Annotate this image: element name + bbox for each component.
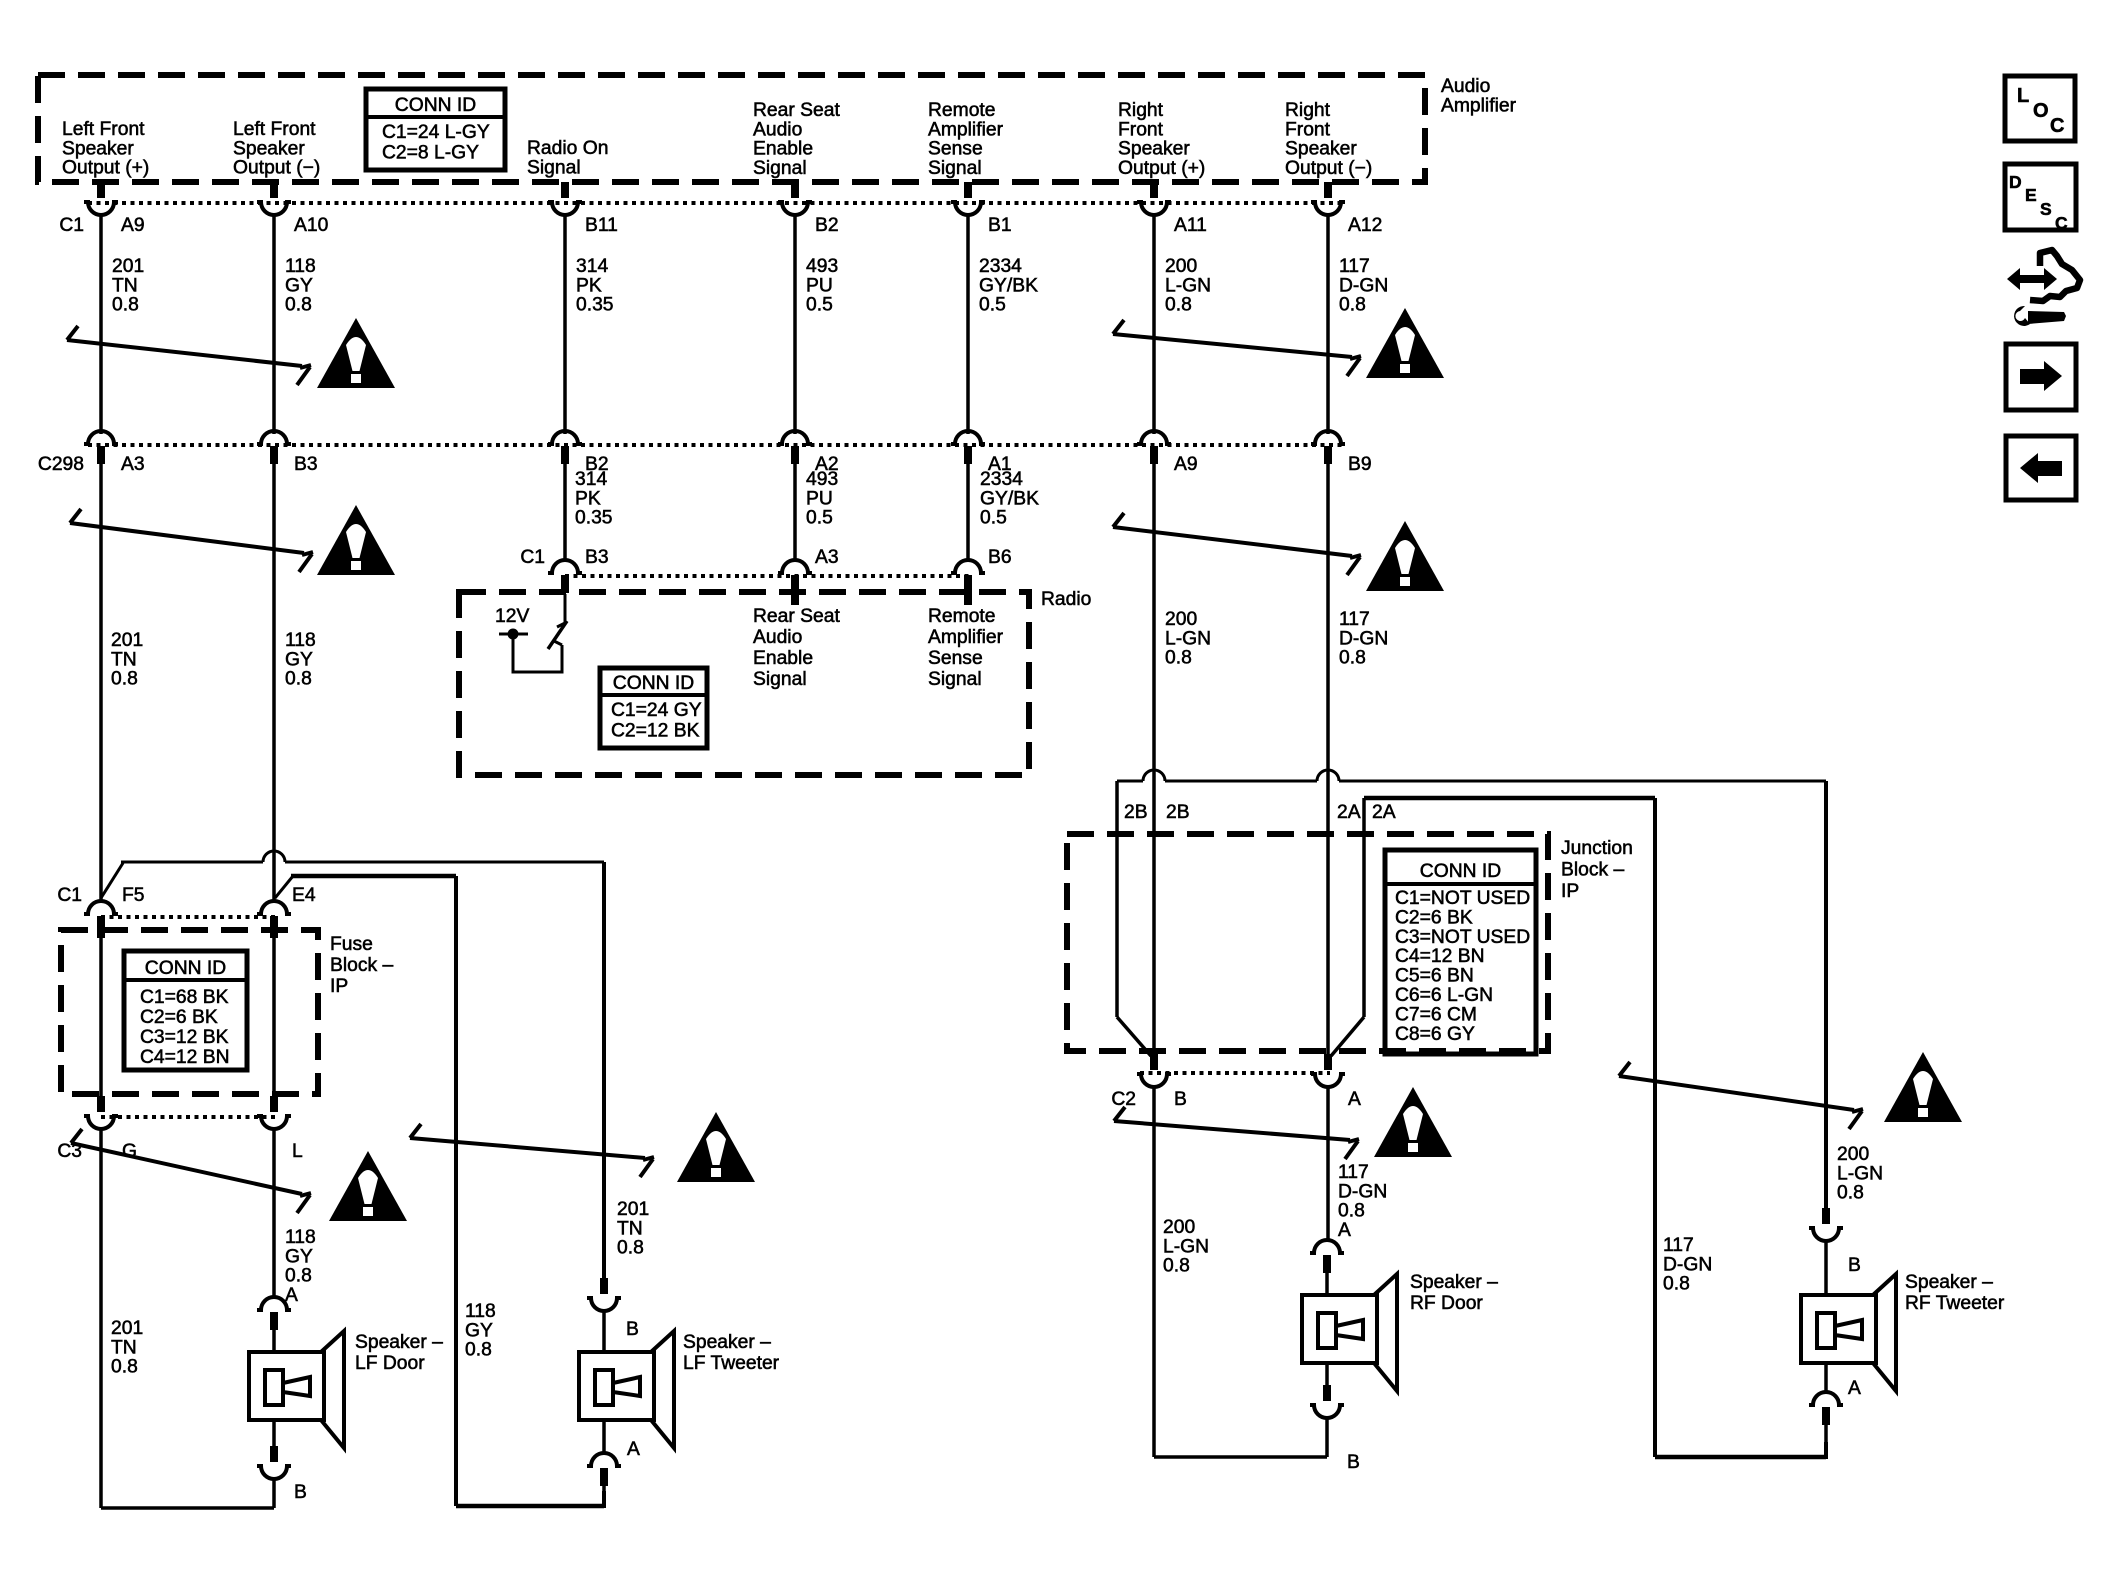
connector LF tweeter A bbox=[587, 1420, 621, 1507]
svg-text:D-GN: D-GN bbox=[1663, 1254, 1712, 1275]
svg-text:A12: A12 bbox=[1348, 215, 1382, 236]
svg-text:B6: B6 bbox=[988, 547, 1012, 568]
value label 201 TN 0.8 (LF tweeter B wire) bbox=[617, 1199, 649, 1259]
speaker RF Tweeter bbox=[1801, 1274, 1896, 1391]
connector amp pin B11 bbox=[548, 182, 582, 215]
svg-text:0.8: 0.8 bbox=[111, 1357, 138, 1378]
connector RF door B bbox=[1310, 1363, 1344, 1457]
pin label B3 (row3) bbox=[585, 547, 609, 568]
wire 493 PU (A2-A3) bbox=[793, 464, 797, 560]
connector LF tweeter B bbox=[587, 1278, 621, 1352]
svg-text:0.8: 0.8 bbox=[1663, 1274, 1690, 1295]
svg-text:Signal: Signal bbox=[753, 669, 807, 690]
svg-text:200: 200 bbox=[1165, 256, 1197, 277]
svg-text:Output (+): Output (+) bbox=[62, 158, 149, 179]
pin label B2 (row1) bbox=[815, 215, 839, 236]
pin label G bbox=[122, 1141, 137, 1162]
svg-text:GY/BK: GY/BK bbox=[980, 488, 1039, 509]
sidebar navigate icon (arrows and wrench) bbox=[2007, 250, 2080, 326]
pin label E4 bbox=[292, 885, 316, 906]
svg-text:493: 493 bbox=[806, 256, 838, 277]
svg-text:Speaker: Speaker bbox=[1118, 139, 1190, 160]
connector amp pin A12 bbox=[1311, 182, 1345, 215]
label Speaker - RF Door bbox=[1410, 1272, 1498, 1314]
pin label B9 (row2) bbox=[1348, 454, 1372, 475]
svg-text:Output (−): Output (−) bbox=[1285, 158, 1372, 179]
connector C298 pin B9 bbox=[1311, 431, 1345, 464]
svg-text:2A: 2A bbox=[1372, 802, 1396, 823]
pin label A1 (row2) bbox=[988, 454, 1012, 475]
svg-text:0.35: 0.35 bbox=[575, 508, 613, 529]
svg-text:Radio: Radio bbox=[1041, 589, 1091, 610]
warning triangle 6 bbox=[677, 1112, 755, 1182]
svg-text:Left Front: Left Front bbox=[62, 119, 145, 140]
svg-text:LF Door: LF Door bbox=[355, 1353, 425, 1374]
fuse block dashed box bbox=[61, 930, 318, 1094]
svg-text:118: 118 bbox=[285, 256, 316, 277]
junction block 2A labels bbox=[1337, 802, 1396, 823]
svg-text:Speaker –: Speaker – bbox=[1410, 1272, 1498, 1293]
svg-text:C1: C1 bbox=[57, 885, 82, 906]
label Junction Block - IP bbox=[1561, 838, 1633, 902]
svg-text:CONN ID: CONN ID bbox=[613, 673, 694, 694]
junction block CONN ID box bbox=[1385, 850, 1536, 1054]
svg-text:D-GN: D-GN bbox=[1339, 275, 1388, 296]
wire bus to RF tweeter A bbox=[1364, 798, 1826, 1459]
svg-text:B3: B3 bbox=[294, 454, 318, 475]
svg-text:Remote: Remote bbox=[928, 100, 996, 121]
svg-text:L-GN: L-GN bbox=[1837, 1163, 1883, 1184]
svg-text:0.8: 0.8 bbox=[285, 1266, 312, 1287]
pin label A12 (row1) bbox=[1348, 215, 1382, 236]
svg-text:118: 118 bbox=[285, 630, 316, 651]
svg-text:Signal: Signal bbox=[928, 669, 982, 690]
amp CONN ID box bbox=[366, 89, 505, 170]
svg-text:117: 117 bbox=[1663, 1235, 1694, 1256]
wire 200 L-GN (B to RF door B) bbox=[1154, 1086, 1327, 1457]
pin label A3 (row3) bbox=[815, 547, 839, 568]
radio dashed box bbox=[459, 592, 1029, 775]
connector RF tweeter B bbox=[1809, 1208, 1843, 1295]
warning arrow 5 bbox=[71, 1129, 311, 1213]
svg-text:0.8: 0.8 bbox=[1339, 648, 1366, 669]
junction block internal line 2B bbox=[1117, 781, 1151, 1056]
svg-text:A11: A11 bbox=[1174, 215, 1207, 236]
svg-text:Remote: Remote bbox=[928, 606, 996, 627]
warning triangle 8 bbox=[1884, 1052, 1962, 1122]
svg-text:0.8: 0.8 bbox=[1165, 648, 1192, 669]
svg-text:C5=6 BN: C5=6 BN bbox=[1395, 966, 1474, 987]
svg-text:A9: A9 bbox=[1174, 454, 1198, 475]
value label 117 D-GN 0.8 (RF tweeter A wire) bbox=[1663, 1235, 1712, 1295]
svg-text:GY: GY bbox=[285, 275, 313, 296]
svg-text:TN: TN bbox=[112, 275, 138, 296]
svg-text:Enable: Enable bbox=[753, 139, 813, 160]
wire 200 L-GN (row1-row2) at x=1154 bbox=[1152, 214, 1156, 434]
pin label B2 (row2) bbox=[585, 454, 609, 475]
connector amp pin B2 bbox=[778, 182, 812, 215]
svg-text:C1=24 GY: C1=24 GY bbox=[611, 700, 702, 721]
label C1 (radio connector) bbox=[520, 547, 545, 568]
svg-text:Left Front: Left Front bbox=[233, 119, 316, 140]
svg-text:PU: PU bbox=[806, 488, 833, 509]
radio stub B6 bbox=[964, 592, 972, 605]
wire bus to LF tweeter B bbox=[121, 851, 604, 1278]
speaker LF Tweeter bbox=[579, 1331, 674, 1448]
svg-text:Right: Right bbox=[1285, 100, 1331, 121]
svg-text:Amplifier: Amplifier bbox=[928, 627, 1004, 648]
connector LF door A bbox=[257, 1297, 291, 1353]
label C2 (junction block bottom) bbox=[1111, 1089, 1136, 1110]
value label 200 L-GN 0.8 (mid-right) bbox=[1165, 609, 1211, 669]
value label 201 TN 0.8 (mid-left) bbox=[111, 630, 143, 690]
fuse block stub E4 bbox=[270, 930, 278, 938]
amp label Left Front Speaker Output (+) bbox=[62, 119, 149, 179]
switch and 12V source (radio on) bbox=[499, 594, 567, 672]
svg-text:Audio: Audio bbox=[753, 627, 802, 648]
wire 117 D-GN (A to RF door A) bbox=[1326, 1086, 1330, 1241]
sidebar LOC box bbox=[2005, 76, 2075, 141]
svg-text:117: 117 bbox=[1338, 1162, 1369, 1183]
svg-text:493: 493 bbox=[806, 469, 838, 490]
svg-text:201: 201 bbox=[112, 256, 144, 277]
wire branch diagonal at F5 bbox=[101, 863, 123, 898]
speaker LF Door bbox=[249, 1331, 344, 1448]
svg-text:2334: 2334 bbox=[980, 469, 1023, 490]
connector RF tweeter A bbox=[1809, 1363, 1843, 1458]
svg-text:Output (−): Output (−) bbox=[233, 158, 320, 179]
pin label A11 (row1) bbox=[1174, 215, 1207, 236]
svg-text:118: 118 bbox=[285, 1227, 316, 1248]
svg-text:C1=NOT USED: C1=NOT USED bbox=[1395, 888, 1530, 909]
svg-text:Rear Seat: Rear Seat bbox=[753, 606, 840, 627]
svg-text:B1: B1 bbox=[988, 215, 1012, 236]
svg-text:C1: C1 bbox=[59, 215, 84, 236]
svg-text:TN: TN bbox=[111, 1337, 137, 1358]
svg-text:2B: 2B bbox=[1124, 802, 1148, 823]
svg-text:201: 201 bbox=[111, 630, 143, 651]
warning arrow 7 bbox=[1114, 1107, 1359, 1159]
pin label A (RF tweeter) bbox=[1848, 1378, 1861, 1399]
wire 117 D-GN (B9-2A) bbox=[1326, 464, 1330, 835]
amp label Left Front Speaker Output (-) bbox=[233, 119, 320, 179]
svg-text:0.8: 0.8 bbox=[285, 295, 312, 316]
svg-text:2B: 2B bbox=[1166, 802, 1190, 823]
connector amp pin A10 bbox=[257, 182, 291, 215]
pin label A2 (row2) bbox=[815, 454, 839, 475]
pin label B11 (row1) bbox=[585, 215, 618, 236]
connector fuse block G bbox=[84, 1096, 118, 1129]
row2 connector dotted line bbox=[88, 443, 1342, 447]
row1 connector dotted line bbox=[88, 201, 1342, 205]
svg-text:C298: C298 bbox=[38, 454, 84, 475]
svg-text:L-GN: L-GN bbox=[1165, 628, 1211, 649]
svg-text:Block –: Block – bbox=[1561, 860, 1625, 881]
amp label Radio On Signal bbox=[527, 138, 608, 178]
svg-text:O: O bbox=[2033, 100, 2049, 122]
sidebar DESC box bbox=[2005, 164, 2076, 233]
svg-text:C8=6 GY: C8=6 GY bbox=[1395, 1024, 1475, 1045]
svg-text:TN: TN bbox=[111, 649, 137, 670]
pin label B (RF tweeter) bbox=[1848, 1255, 1861, 1276]
svg-text:Sense: Sense bbox=[928, 648, 983, 669]
wire 200 L-GN (A9-2B) bbox=[1152, 464, 1156, 835]
label 12V bbox=[495, 606, 529, 627]
wire 118 GY (row1-row2) at x=274 bbox=[272, 214, 276, 434]
value label 117 D-GN 0.8 (upper) bbox=[1339, 256, 1388, 316]
svg-text:C: C bbox=[2050, 115, 2064, 137]
svg-text:200: 200 bbox=[1165, 609, 1197, 630]
fuse block top dotted line bbox=[101, 915, 277, 919]
connector junction block A bbox=[1311, 1054, 1345, 1087]
pin label A (junction block) bbox=[1348, 1089, 1361, 1110]
svg-text:L-GN: L-GN bbox=[1165, 275, 1211, 296]
svg-text:C2=6 BK: C2=6 BK bbox=[1395, 907, 1473, 928]
svg-text:A: A bbox=[1348, 1089, 1361, 1110]
value label 201 TN 0.8 (lower-left) bbox=[111, 1318, 143, 1378]
value label 118 GY 0.8 (LF tweeter A wire) bbox=[465, 1301, 496, 1361]
wire 201 TN (row1-row2) at x=101 bbox=[99, 214, 103, 434]
radio label Rear Seat Audio Enable Signal bbox=[753, 606, 840, 690]
amp label Rear Seat Audio Enable Signal bbox=[753, 100, 840, 179]
value label 2334 GY/BK 0.5 (mid) bbox=[980, 469, 1039, 529]
amp label Remote Amplifier Sense Signal bbox=[928, 100, 1004, 179]
svg-text:0.8: 0.8 bbox=[285, 669, 312, 690]
svg-text:0.8: 0.8 bbox=[111, 669, 138, 690]
connector C298 pin A3 bbox=[84, 431, 118, 464]
fuse block bottom dotted line bbox=[101, 1115, 277, 1119]
pin label A9 (row2) bbox=[1174, 454, 1198, 475]
svg-text:A: A bbox=[1338, 1220, 1351, 1241]
svg-text:S: S bbox=[2040, 199, 2052, 219]
svg-text:2334: 2334 bbox=[979, 256, 1022, 277]
pin label B6 (row3) bbox=[988, 547, 1012, 568]
connector radio pin B3 bbox=[548, 560, 582, 593]
radio stub A3 bbox=[791, 592, 799, 605]
svg-text:C: C bbox=[2055, 213, 2068, 233]
svg-text:117: 117 bbox=[1339, 609, 1370, 630]
junction block 2B labels bbox=[1124, 802, 1190, 823]
label Speaker - LF Tweeter bbox=[683, 1332, 780, 1374]
connector LF door B bbox=[257, 1420, 291, 1508]
svg-text:L: L bbox=[2017, 85, 2029, 107]
svg-text:IP: IP bbox=[330, 976, 348, 997]
sidebar prev-page box (left arrow) bbox=[2006, 436, 2076, 500]
svg-text:0.8: 0.8 bbox=[1837, 1183, 1864, 1204]
value label 200 L-GN 0.8 (upper) bbox=[1165, 256, 1211, 316]
svg-text:A: A bbox=[627, 1439, 640, 1460]
svg-text:117: 117 bbox=[1339, 256, 1370, 277]
label Fuse Block - IP bbox=[330, 934, 394, 997]
svg-text:B: B bbox=[1174, 1089, 1187, 1110]
svg-text:314: 314 bbox=[575, 469, 607, 490]
svg-text:GY: GY bbox=[285, 1246, 313, 1267]
svg-text:0.8: 0.8 bbox=[1339, 295, 1366, 316]
value label 118 GY 0.8 A (lower-left) bbox=[285, 1227, 316, 1306]
svg-text:LF Tweeter: LF Tweeter bbox=[683, 1353, 780, 1374]
connector C298 pin A1 bbox=[951, 431, 985, 464]
svg-text:0.8: 0.8 bbox=[112, 295, 139, 316]
radio label Remote Amplifier Sense Signal bbox=[928, 606, 1004, 690]
wire 201 TN (G to LF door B) bbox=[101, 1128, 274, 1508]
svg-text:Speaker –: Speaker – bbox=[355, 1332, 443, 1353]
connector fuse block E4 bbox=[257, 901, 291, 934]
svg-text:Amplifier: Amplifier bbox=[928, 119, 1004, 140]
connector radio pin B6 bbox=[951, 560, 985, 593]
connector C298 pin A9 bbox=[1137, 431, 1171, 464]
pin label A9 (row1) bbox=[121, 215, 145, 236]
svg-text:0.5: 0.5 bbox=[806, 295, 833, 316]
fuse block internal wire F5-G bbox=[99, 937, 103, 1100]
label Speaker - LF Door bbox=[355, 1332, 443, 1374]
connector junction block B bbox=[1137, 1054, 1171, 1087]
svg-text:A3: A3 bbox=[815, 547, 839, 568]
svg-text:C3=NOT USED: C3=NOT USED bbox=[1395, 927, 1530, 948]
svg-text:200: 200 bbox=[1837, 1144, 1869, 1165]
value label 118 GY 0.8 (upper) bbox=[285, 256, 316, 316]
wire 314 PK (row1-row2) at x=565 bbox=[563, 214, 567, 434]
junction block internal line 2A bbox=[1331, 798, 1364, 1056]
wire bus to RF tweeter B bbox=[1117, 770, 1826, 1208]
svg-text:PU: PU bbox=[806, 275, 833, 296]
svg-text:0.8: 0.8 bbox=[1338, 1201, 1365, 1222]
wire 201 TN (A3-F5) bbox=[99, 464, 103, 900]
wire 117 D-GN (row1-row2) at x=1328 bbox=[1326, 214, 1330, 434]
svg-text:GY: GY bbox=[285, 649, 313, 670]
svg-text:PK: PK bbox=[575, 488, 601, 509]
warning triangle 7 bbox=[1374, 1087, 1452, 1157]
svg-text:CONN ID: CONN ID bbox=[145, 958, 226, 979]
svg-text:Speaker –: Speaker – bbox=[683, 1332, 771, 1353]
warning triangle 5 bbox=[329, 1151, 407, 1221]
connector amp pin A11 bbox=[1137, 182, 1171, 215]
svg-text:D-GN: D-GN bbox=[1338, 1181, 1387, 1202]
svg-text:D: D bbox=[2009, 172, 2022, 192]
wire 118 GY (L to LF door A) bbox=[272, 1128, 276, 1298]
wire 493 PU (row1-row2) at x=795 bbox=[793, 214, 797, 434]
svg-text:2A: 2A bbox=[1337, 802, 1361, 823]
pin label B (RF door) bbox=[1347, 1452, 1360, 1473]
connector fuse block F5 bbox=[84, 901, 118, 934]
junction block dashed box bbox=[1067, 834, 1548, 1051]
amp label Right Front Speaker Output (-) bbox=[1285, 100, 1372, 179]
connector C298 pin A2 bbox=[778, 431, 812, 464]
svg-text:D-GN: D-GN bbox=[1339, 628, 1388, 649]
svg-text:C3=12 BK: C3=12 BK bbox=[140, 1027, 229, 1048]
junction block bottom dotted line bbox=[1140, 1071, 1330, 1075]
svg-text:12V: 12V bbox=[495, 606, 529, 627]
svg-text:A9: A9 bbox=[121, 215, 145, 236]
wire 2334 GY/BK (row1-row2) at x=968 bbox=[966, 214, 970, 434]
warning arrow 4 bbox=[1113, 513, 1361, 575]
label C1 (fuse block top) bbox=[57, 885, 82, 906]
warning triangle 4 bbox=[1366, 521, 1444, 591]
wire 200 L-GN inside junction block bbox=[1152, 835, 1156, 1056]
svg-text:Output (+): Output (+) bbox=[1118, 158, 1205, 179]
connector radio pin A3 bbox=[778, 560, 812, 593]
svg-text:0.8: 0.8 bbox=[1163, 1256, 1190, 1277]
fuse block internal wire E4-L bbox=[272, 937, 276, 1100]
value label 314 PK 0.35 (mid) bbox=[575, 469, 613, 529]
label C298 (connector) bbox=[38, 454, 84, 475]
svg-text:Signal: Signal bbox=[527, 157, 581, 178]
pin label A (LF tweeter) bbox=[627, 1439, 640, 1460]
svg-text:IP: IP bbox=[1561, 881, 1579, 902]
svg-text:Speaker: Speaker bbox=[1285, 139, 1357, 160]
svg-text:A: A bbox=[1848, 1378, 1861, 1399]
svg-text:GY/BK: GY/BK bbox=[979, 275, 1038, 296]
label Radio bbox=[1041, 589, 1091, 610]
svg-text:RF Tweeter: RF Tweeter bbox=[1905, 1293, 2005, 1314]
svg-text:C6=6 L-GN: C6=6 L-GN bbox=[1395, 985, 1493, 1006]
value label 117 D-GN 0.8 (mid-right) bbox=[1339, 609, 1388, 669]
pin label A3 (row2) bbox=[121, 454, 145, 475]
warning arrow 6 bbox=[410, 1124, 654, 1177]
svg-text:C2=6 BK: C2=6 BK bbox=[140, 1007, 218, 1028]
warning triangle 2 bbox=[1366, 308, 1444, 378]
radio CONN ID box bbox=[600, 668, 707, 748]
wire 118 GY (B3-E4) bbox=[272, 464, 276, 900]
svg-text:Sense: Sense bbox=[928, 139, 983, 160]
svg-text:Block –: Block – bbox=[330, 955, 394, 976]
label Speaker - RF Tweeter bbox=[1905, 1272, 2005, 1314]
svg-text:B11: B11 bbox=[585, 215, 618, 236]
svg-text:Fuse: Fuse bbox=[330, 934, 373, 955]
value label 200 L-GN 0.8 (RF tweeter B wire) bbox=[1837, 1144, 1883, 1204]
svg-text:B3: B3 bbox=[585, 547, 609, 568]
svg-text:0.5: 0.5 bbox=[979, 295, 1006, 316]
svg-text:Amplifier: Amplifier bbox=[1441, 95, 1517, 116]
pin label B3 (row2) bbox=[294, 454, 318, 475]
svg-text:B: B bbox=[294, 1482, 307, 1503]
svg-text:B: B bbox=[626, 1319, 639, 1340]
label C3 (fuse block bottom) bbox=[57, 1141, 82, 1162]
svg-text:Signal: Signal bbox=[928, 158, 982, 179]
svg-text:C4=12 BN: C4=12 BN bbox=[1395, 946, 1485, 967]
label Audio Amplifier bbox=[1441, 76, 1517, 116]
wire 117 D-GN inside junction block bbox=[1326, 835, 1330, 1056]
audio amplifier dashed box bbox=[38, 75, 1425, 182]
wire branch diagonal at E4 bbox=[275, 876, 293, 898]
value label 117 D-GN 0.8 A (lower-right) bbox=[1338, 1162, 1387, 1241]
sidebar next-page box (right arrow) bbox=[2006, 344, 2076, 410]
svg-text:Speaker –: Speaker – bbox=[1905, 1272, 1993, 1293]
label C1 (amp connector) bbox=[59, 215, 84, 236]
pin label L bbox=[292, 1141, 303, 1162]
svg-text:Junction: Junction bbox=[1561, 838, 1633, 859]
pin label B (junction block) bbox=[1174, 1089, 1187, 1110]
wire bus to LF tweeter A bbox=[291, 876, 604, 1508]
svg-text:201: 201 bbox=[111, 1318, 143, 1339]
svg-text:Front: Front bbox=[1285, 119, 1331, 140]
svg-text:TN: TN bbox=[617, 1218, 643, 1239]
value label 493 PU 0.5 (mid) bbox=[806, 469, 838, 529]
svg-text:F5: F5 bbox=[122, 885, 145, 906]
svg-text:L-GN: L-GN bbox=[1163, 1236, 1209, 1257]
connector C298 pin B3 bbox=[257, 431, 291, 464]
svg-text:Speaker: Speaker bbox=[62, 138, 134, 159]
svg-text:B: B bbox=[1347, 1452, 1360, 1473]
svg-text:B: B bbox=[1848, 1255, 1861, 1276]
svg-text:Speaker: Speaker bbox=[233, 138, 305, 159]
svg-text:E: E bbox=[2025, 185, 2037, 205]
svg-text:Radio On: Radio On bbox=[527, 138, 608, 159]
pin label B (LF door) bbox=[294, 1482, 307, 1503]
connector fuse block L bbox=[257, 1096, 291, 1129]
value label 201 TN 0.8 (upper) bbox=[112, 256, 144, 316]
value label 314 PK 0.35 (upper) bbox=[576, 256, 614, 316]
svg-text:0.8: 0.8 bbox=[465, 1340, 492, 1361]
